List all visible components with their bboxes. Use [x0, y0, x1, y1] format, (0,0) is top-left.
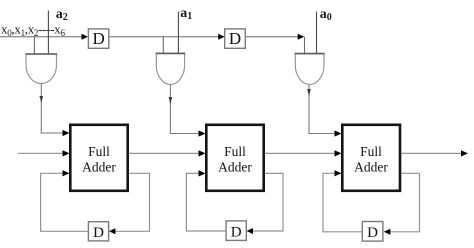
- wire D2 to G3: [245, 36, 298, 38]
- wire FA2 carry loop right: [253, 173, 284, 231]
- full adder U3: [342, 125, 400, 191]
- node arrow into FA1 input3: [63, 170, 70, 176]
- node arrow into FA2 input1: [199, 130, 206, 136]
- and gate G3: [295, 54, 325, 85]
- node tick on G3 drop: [307, 89, 311, 96]
- wire FA1 carry loop right: [115, 173, 150, 231]
- wire serial input to FA1: [18, 152, 63, 154]
- node arrow into D3b: [384, 229, 391, 235]
- wire top bus from input to D1: [0, 36, 83, 38]
- wire a2 vertical: [47, 11, 49, 55]
- wire a1 vertical: [177, 12, 179, 55]
- node output arrow: [461, 150, 468, 156]
- node arrow into D2: [218, 34, 225, 40]
- wire D3b to FA3 carry-in: [323, 173, 362, 232]
- svg-text:D: D: [93, 225, 104, 241]
- wire G3 left leg: [304, 37, 306, 54]
- wire FA1 sum to FA2: [129, 152, 199, 154]
- node tick on G1 drop: [40, 96, 44, 103]
- node arrow into D2b: [247, 228, 254, 234]
- dff D2 top: [225, 29, 246, 49]
- svg-text:Adder: Adder: [218, 159, 252, 174]
- svg-text:D: D: [367, 225, 378, 241]
- node arrow into FA1 input1: [63, 130, 70, 136]
- node arrow into FA3 input3: [335, 170, 342, 176]
- wire G3 output drop: [309, 85, 335, 134]
- and gate G1: [25, 54, 57, 84]
- node arrow into FA3 input1: [335, 130, 342, 136]
- dff D1 bottom: [88, 222, 108, 241]
- wire D2b to FA2 carry-in: [186, 173, 226, 231]
- dff D1 top: [88, 29, 108, 49]
- wire G2 left leg: [162, 37, 164, 54]
- node tick on G2 drop: [169, 97, 173, 104]
- node arrow into G3 leg: [298, 34, 305, 40]
- node arrow into FA3 input2: [335, 150, 342, 156]
- wire FA3 carry loop right: [390, 173, 420, 232]
- svg-text:x0,x1,x2----x6: x0,x1,x2----x6: [1, 22, 65, 39]
- wire D1 to D2: [109, 36, 219, 38]
- node arrow into D1: [82, 34, 89, 40]
- node arrow into D1b: [109, 228, 116, 234]
- and gate G2: [156, 53, 186, 84]
- wire G2 output drop: [170, 85, 198, 134]
- wire FA2 sum to FA3: [265, 152, 335, 154]
- wire D1b to FA1 carry-in: [41, 173, 89, 231]
- svg-text:Full: Full: [224, 144, 246, 159]
- svg-text:D: D: [229, 29, 241, 48]
- wire G1 left leg: [33, 37, 35, 55]
- dff D2 bottom: [226, 221, 246, 241]
- wire FA3 sum output: [401, 152, 462, 154]
- svg-text:D: D: [92, 29, 104, 48]
- node arrow into FA2 input2: [199, 150, 206, 156]
- wire G1 output drop: [41, 84, 62, 134]
- svg-text:Full: Full: [88, 144, 110, 159]
- svg-text:D: D: [231, 225, 242, 241]
- svg-text:Adder: Adder: [354, 159, 388, 174]
- node arrow into FA1 input2: [63, 150, 70, 156]
- wire a0 vertical: [316, 12, 318, 55]
- full adder U1: [70, 125, 127, 191]
- node arrow into FA2 input3: [199, 170, 206, 176]
- dff D3 bottom: [362, 222, 383, 242]
- svg-text:Full: Full: [360, 144, 382, 159]
- full adder U2: [206, 125, 263, 191]
- svg-text:Adder: Adder: [82, 159, 116, 174]
